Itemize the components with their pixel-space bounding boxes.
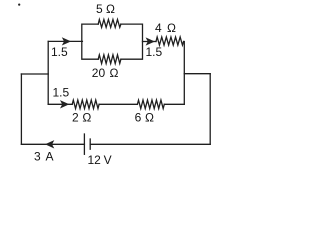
wire: right branch vertical [183, 42, 185, 105]
wire: between 2 ohm and 6 ohm [99, 103, 137, 105]
svg-text:20 Ω: 20 Ω [92, 66, 119, 80]
svg-text:2 Ω: 2 Ω [72, 111, 91, 125]
wire: bottom right segment from battery [90, 143, 210, 145]
resistor 4 ohm [156, 37, 184, 45]
wire: bottom left segment to battery [21, 143, 84, 145]
svg-text:1.5: 1.5 [146, 45, 163, 59]
wire: box exit to 4 ohm [143, 41, 157, 43]
wire: 6 ohm exit [164, 103, 184, 105]
resistor 5 ohm [98, 20, 121, 28]
arrow: current out of box into 4 ohm (1.5) [147, 38, 154, 44]
wire: 2 ohm entry [48, 103, 72, 105]
wire: right rail [209, 74, 211, 145]
resistor 20 ohm [98, 55, 121, 64]
arrow: current into 2 ohm (1.5) [61, 101, 68, 107]
svg-text:1.5: 1.5 [53, 85, 70, 99]
svg-text:12 V: 12 V [88, 153, 112, 167]
wire: joint to right rail [184, 73, 210, 75]
wire: left connector [21, 73, 48, 75]
wire: node A vertical [47, 41, 49, 104]
arrow: current into box (1.5) [63, 38, 70, 44]
svg-text:5 Ω: 5 Ω [96, 2, 115, 16]
resistor 6 ohm [137, 100, 164, 109]
svg-text:3 A: 3 A [34, 150, 54, 164]
wire: entry to parallel box [48, 40, 82, 42]
resistor 2 ohm [72, 100, 99, 109]
battery B1 short plate [89, 139, 91, 149]
wire: left rail [20, 74, 22, 144]
svg-text:6 Ω: 6 Ω [135, 111, 154, 125]
svg-text:1.5: 1.5 [51, 45, 68, 59]
svg-text:4 Ω: 4 Ω [155, 21, 176, 35]
stray dot [19, 4, 20, 5]
battery B1 long plate [83, 134, 85, 154]
node box: parallel combination frame [82, 24, 143, 59]
arrow: 3 A on bottom wire, pointing left [46, 141, 53, 147]
